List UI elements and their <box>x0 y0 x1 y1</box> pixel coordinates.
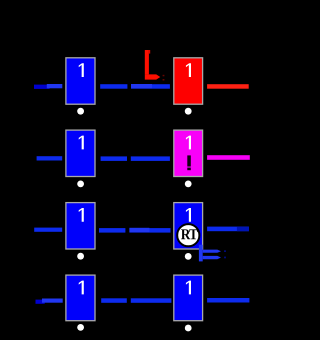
label 1 (row4 right) <box>186 281 191 295</box>
label 1 (row4 left) <box>79 281 84 295</box>
wire: row2 middle dash 2 <box>131 156 170 161</box>
box: row1 right red packet <box>174 58 203 104</box>
wire: row1 left dash bright part <box>47 84 63 88</box>
wire: row1 middle dash 2 <box>131 84 170 89</box>
wire: row3 middle dash 2 bright overlay <box>129 228 149 232</box>
loss marker L (red) <box>145 50 149 74</box>
wire: row3 middle dash 2 <box>129 228 170 233</box>
wire: row3 right dash <box>207 227 249 232</box>
error mark ! (black) <box>187 155 191 166</box>
box: row3 left blue packet <box>66 203 95 249</box>
wire: row4 right dash <box>207 298 249 303</box>
box: row2 left blue packet <box>66 130 95 176</box>
token dot row2 right <box>185 181 192 188</box>
wire: row4 left dash dark part <box>36 300 45 304</box>
box: row4 left blue packet <box>66 275 95 321</box>
box: row4 right blue packet <box>174 275 203 321</box>
wire: row3 right dash dark tail <box>237 227 249 231</box>
label 1 (row3 right) <box>186 208 191 222</box>
box: row2 right magenta packet <box>174 130 203 176</box>
box: row3 right blue packet <box>174 203 203 249</box>
wire: row4 middle dash 1 <box>101 298 127 303</box>
label 1 (row2 left) <box>79 136 84 150</box>
wire: row1 middle dash 2 bright overlay <box>131 84 152 88</box>
label 1 (row2 right) <box>186 136 191 150</box>
wire: row3 middle dash 1 <box>99 228 125 233</box>
wire: row1 right dash red <box>207 84 249 89</box>
RT badge text <box>181 229 198 239</box>
wire: row1 middle dash 1 <box>100 84 127 89</box>
token dot row1 left <box>77 108 84 115</box>
wire: row2 middle dash 1 <box>101 156 127 161</box>
wire: row3 left dash <box>34 228 62 232</box>
label 1 (row3 left) <box>79 208 84 222</box>
label 1 (row1 right) <box>186 63 191 77</box>
wire: row2 left dash <box>37 156 63 160</box>
retransmit marker (blue double arrow) <box>199 245 203 262</box>
token dot row3 right <box>185 253 192 260</box>
label 1 (row1 left) <box>79 63 84 77</box>
wire: row4 middle dash 2 <box>131 298 172 303</box>
token dot row4 right <box>185 325 192 332</box>
wire: row2 right dash magenta <box>207 155 250 160</box>
box: row1 left blue packet <box>66 58 95 104</box>
RT badge circle <box>177 224 199 246</box>
wire: row1 left dash dark part <box>34 85 50 89</box>
token dot row2 left <box>77 181 84 188</box>
token dot row3 left <box>77 253 84 260</box>
token dot row4 left <box>77 324 84 331</box>
wire: row4 left dash bright part <box>42 299 63 303</box>
token dot row1 right <box>185 108 192 115</box>
